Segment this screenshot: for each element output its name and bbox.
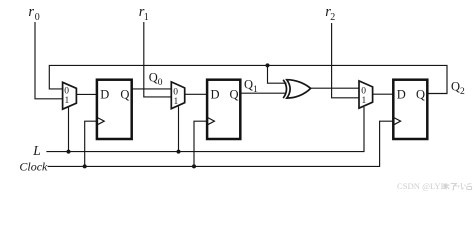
svg-text:Q: Q [244,78,253,92]
clock triangle FF3 [394,118,401,125]
flip-flop FF1 [97,80,132,139]
wire: XOR output -> mux3 input 0 [311,87,360,89]
svg-text:L: L [32,143,41,158]
svg-text:1: 1 [65,96,70,106]
node: Clock/FF2 junction [192,164,196,168]
svg-text:2: 2 [460,87,465,97]
svg-text:1: 1 [144,12,149,23]
wire: mux2 output -> FF2 D [185,93,208,95]
svg-text:0: 0 [361,87,366,97]
wire: clock branch FF2 [194,121,207,166]
wire: r0 input to mux1 input 1 [35,22,63,99]
wire: r2 input to mux3 input 1 [332,23,360,98]
clock triangle FF2 [208,118,215,125]
svg-text:Q: Q [230,87,239,101]
node: L/mux1 select junction [67,150,71,154]
svg-text:Q: Q [149,71,158,85]
svg-text:Q: Q [416,87,425,101]
svg-text:r: r [28,4,34,20]
wire: mux1 select drop [68,107,70,152]
wire: clock branch FF1 [85,121,97,166]
wire: Q0 (FF1 Q -> mux2 input 0) [132,88,172,90]
svg-text:D: D [100,87,109,101]
svg-text:D: D [211,87,220,101]
wire: mux3 output -> FF3 D [373,93,394,95]
multiplexer M3 [359,81,373,108]
wire: L line [46,107,364,152]
clock triangle FF1 [98,118,105,125]
svg-text:D: D [397,87,406,101]
svg-text:Q: Q [451,79,460,93]
node: L/mux2 select junction [177,150,181,154]
svg-text:CSDN @LYB: CSDN @LYB [397,181,447,191]
svg-text:0: 0 [158,78,163,88]
svg-text:0: 0 [35,12,40,23]
wire: mux1 output -> FF1 D [76,93,97,95]
XOR gate G1 [283,80,310,98]
svg-text:Q: Q [120,87,129,101]
multiplexer M2 [171,82,184,109]
wire: feedback branch to XOR upper input [268,65,287,83]
flip-flop FF3 [393,80,427,139]
svg-text:2: 2 [330,12,335,23]
multiplexer M1 [63,82,77,109]
wire: Q2 feedback net (FF3 Q -> top line -> mux1 input 0) [49,65,447,93]
svg-text:1: 1 [253,85,258,95]
svg-text:1: 1 [174,97,179,107]
svg-text:0: 0 [173,87,178,97]
flip-flop FF2 [207,80,240,139]
wire: r1 input to mux2 input 1 [144,22,172,97]
svg-text:1: 1 [362,96,367,106]
wire: mux2 select drop [178,106,180,151]
node: Clock/FF1 junction [83,164,87,168]
wire: Q1 (FF2 Q -> XOR lower input) [240,92,286,94]
wire: Clock line [48,121,394,166]
svg-text:Clock: Clock [19,160,48,174]
node: feedback/XOR junction [266,63,270,67]
